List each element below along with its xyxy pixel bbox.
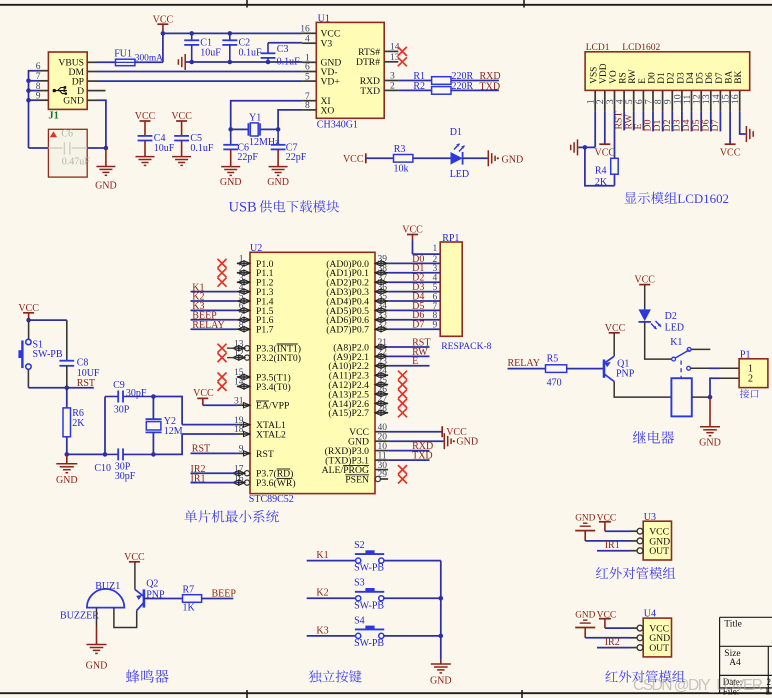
svg-text:D2: D2 (665, 311, 677, 322)
crystal Y1 (231, 113, 280, 149)
svg-text:E: E (412, 356, 418, 367)
wire D3 bus (388, 282, 440, 293)
svg-text:SW-PB: SW-PB (354, 563, 384, 574)
capacitor C6 0.47uF (disabled) (48, 128, 90, 177)
no-ERC marker P3.5 (218, 373, 227, 382)
power port VCC (Q1) (605, 323, 626, 356)
section title MCU (184, 510, 278, 523)
svg-text:RW: RW (628, 69, 638, 84)
U2 right pin stubs (375, 255, 388, 482)
transistor Q1 PNP (599, 356, 635, 381)
resistor R3 (394, 144, 413, 174)
power port VCC (U3) (597, 512, 631, 531)
net label E (LCD) (633, 112, 644, 131)
capacitor C1 (184, 31, 221, 64)
svg-text:Title: Title (724, 619, 742, 629)
power port VCC (EA/VPP) (193, 388, 237, 405)
svg-text:GND: GND (502, 154, 524, 165)
wire D2 bus (388, 273, 440, 284)
svg-text:S2: S2 (354, 540, 365, 551)
svg-text:300mA: 300mA (135, 54, 163, 64)
svg-text:GND: GND (86, 661, 108, 672)
svg-text:D6: D6 (705, 72, 715, 84)
net label K3 (key) (307, 625, 356, 636)
svg-text:TXD: TXD (360, 86, 380, 97)
svg-text:GND: GND (56, 475, 78, 486)
svg-text:R4: R4 (595, 166, 607, 177)
no-ERC marker DTR# (398, 57, 407, 66)
RP1 pin 1 (413, 244, 441, 254)
connector J1 (48, 52, 87, 109)
watermark (633, 677, 763, 694)
svg-text:30P: 30P (114, 404, 130, 415)
svg-text:OUT: OUT (649, 546, 669, 557)
svg-text:R2: R2 (413, 81, 425, 92)
connector P1 (739, 349, 768, 398)
ground (C5) (172, 157, 191, 166)
net label RW (LCD) (623, 112, 634, 131)
svg-text:RXD: RXD (480, 71, 501, 82)
ground (U4) (575, 610, 630, 638)
svg-text:0.1uF: 0.1uF (190, 143, 214, 154)
wire XI (228, 101, 302, 132)
svg-text:10uF: 10uF (200, 48, 221, 59)
power port VCC (C4) (135, 111, 156, 136)
wire D6 bus (388, 310, 440, 321)
switch S4 SW-PB (354, 615, 384, 649)
no-ERC marker P1.1 (218, 268, 227, 277)
net label TXD (480, 81, 501, 92)
ground (decoupling rail) (178, 54, 302, 70)
IR module U4 (631, 609, 672, 657)
no-ERC marker P2 (398, 399, 407, 408)
ground (keys) (430, 660, 452, 687)
svg-text:29: 29 (378, 470, 388, 480)
capacitor C5 (174, 133, 214, 157)
svg-text:LCD1602: LCD1602 (677, 192, 729, 206)
svg-text:470: 470 (547, 377, 562, 388)
svg-text:D4: D4 (686, 72, 696, 84)
LED D2 (634, 274, 684, 333)
ground (D1) (488, 150, 523, 166)
power port VCC (USB) (153, 14, 174, 33)
net label D6 (LCD) (700, 112, 711, 132)
wire J1 GND (97, 100, 108, 150)
svg-text:D2: D2 (667, 72, 677, 84)
svg-text:VO: VO (609, 70, 619, 84)
svg-text:S4: S4 (354, 615, 365, 626)
wire coil to P1/GND (692, 378, 739, 399)
wire buzzer left (96, 608, 98, 626)
ground GND (J1) (95, 148, 117, 191)
svg-text:GND: GND (575, 610, 595, 620)
wire C9 to XTAL1 (153, 397, 182, 425)
relay contact K1 (670, 337, 739, 377)
net label RST (U2) (191, 444, 237, 455)
wire D4 bus (388, 291, 440, 302)
svg-text:RP1: RP1 (442, 233, 459, 244)
fuse FU1 (97, 49, 163, 66)
ground (C4) (136, 157, 155, 168)
svg-text:16: 16 (300, 25, 310, 35)
ground (LCD BK) (740, 112, 754, 142)
no-ERC marker P2 (398, 371, 407, 380)
svg-text:Y1: Y1 (249, 113, 261, 124)
U2 left pin stubs (233, 255, 250, 486)
net label RXD (480, 71, 501, 82)
net label BEEP (buzzer) (202, 588, 237, 599)
svg-text:16: 16 (730, 94, 741, 104)
chip U1 CH340G (316, 13, 384, 130)
svg-text:GND: GND (575, 513, 595, 523)
relay coil K1 (671, 378, 691, 416)
svg-text:E: E (766, 687, 772, 697)
wire D1 bus (388, 263, 440, 274)
net label IR1 (191, 474, 237, 485)
power port VCC (Q2) (124, 552, 145, 590)
svg-text:PSEN: PSEN (345, 474, 369, 485)
net label BEEP (191, 311, 237, 322)
svg-text:R5: R5 (547, 354, 559, 365)
svg-text:LED: LED (450, 169, 469, 180)
svg-text:E: E (638, 78, 648, 84)
resistor R2 (398, 81, 499, 94)
svg-text:FU1: FU1 (114, 49, 132, 60)
capacitor C6 22pF (223, 129, 258, 166)
svg-text:RESPACK-8: RESPACK-8 (441, 341, 491, 352)
svg-text:PNP: PNP (616, 368, 635, 379)
wire D5 bus (388, 301, 440, 312)
svg-text:S3: S3 (354, 578, 365, 589)
net label K1 (191, 282, 237, 293)
svg-text:VDD: VDD (599, 63, 609, 84)
svg-text:GND: GND (456, 437, 478, 448)
svg-text:U3: U3 (644, 512, 656, 523)
svg-text:11: 11 (378, 451, 387, 461)
ground (buzzer) (86, 626, 108, 672)
net label TXD (U2) (388, 451, 433, 462)
wire V3 (268, 42, 302, 44)
net label IR2 (597, 637, 631, 648)
net label E (P2) (388, 356, 429, 367)
section title relay (633, 431, 674, 444)
title block (720, 617, 772, 696)
net label D0 (LCD) (643, 112, 654, 132)
svg-text:GND: GND (95, 180, 117, 191)
svg-text:SW-PB: SW-PB (33, 349, 63, 360)
wire C10 to XTAL2 (153, 434, 182, 454)
svg-text:3: 3 (390, 72, 395, 82)
svg-text:D3: D3 (676, 72, 686, 84)
svg-text:BA: BA (725, 71, 735, 84)
net label RST (LCD) (614, 112, 625, 131)
svg-text:D5: D5 (696, 72, 706, 84)
svg-text:2: 2 (767, 677, 772, 687)
wire VO (614, 112, 616, 159)
svg-text:TXD: TXD (412, 451, 433, 462)
svg-text:40: 40 (378, 423, 388, 433)
svg-text:U1: U1 (318, 13, 330, 24)
svg-text:A4: A4 (729, 658, 741, 668)
section title U4 (605, 670, 684, 682)
ground (C7) (267, 167, 289, 188)
svg-text:VCC: VCC (343, 154, 364, 165)
svg-text:D1: D1 (657, 72, 667, 84)
resistor R6 (63, 388, 85, 457)
designator J1 (48, 111, 59, 122)
svg-text:CH340G1: CH340G1 (317, 120, 358, 131)
svg-text:BUZZER: BUZZER (60, 611, 99, 622)
wire Q1 collector (614, 382, 671, 398)
svg-text:0.1uF: 0.1uF (239, 48, 263, 59)
net label RST (P2) (388, 337, 430, 348)
svg-text:IR2: IR2 (605, 637, 620, 648)
no-ERC marker P2 (398, 390, 407, 399)
net label K2 (key) (307, 588, 356, 599)
svg-text:EA/VPP: EA/VPP (256, 401, 289, 412)
LCD pin stubs 1-16 (586, 90, 742, 111)
LED D1 (413, 127, 488, 180)
svg-text:C3: C3 (277, 44, 289, 55)
ground (reset) (56, 454, 78, 486)
net label RW (P2) (388, 347, 429, 358)
power port VCC (D1) (343, 153, 394, 165)
svg-text:D7: D7 (710, 119, 721, 131)
wire D2 to K1 (645, 322, 672, 359)
wire D0 bus (388, 254, 440, 265)
resistor R7 (144, 585, 202, 614)
svg-text:9: 9 (433, 321, 438, 331)
svg-text:12MHz: 12MHz (249, 137, 280, 148)
capacitor C9 (105, 380, 156, 454)
svg-text:OUT: OUT (649, 643, 669, 654)
capacitor C3 (261, 43, 301, 68)
no-ERC marker ALE (398, 465, 407, 474)
no-ERC marker RTS# (398, 47, 407, 56)
svg-text:XO: XO (321, 105, 335, 116)
no-ERC marker PSEN (398, 475, 407, 484)
IR module U3 (631, 512, 672, 560)
power port VCC (RP1) (402, 225, 423, 255)
svg-text:DTR#: DTR# (356, 57, 380, 68)
capacitor C8 (59, 357, 100, 387)
section title keys (309, 670, 362, 682)
svg-text:220R: 220R (452, 81, 474, 92)
svg-text:D7: D7 (412, 320, 424, 331)
svg-text:U2: U2 (250, 243, 262, 254)
power port VCC (LCD BA) (720, 112, 741, 159)
net label K3 (191, 301, 237, 312)
svg-text:10: 10 (378, 442, 388, 452)
wire XTAL2 (182, 433, 237, 435)
svg-text:GND: GND (430, 676, 452, 687)
svg-text:TXD: TXD (480, 81, 501, 92)
no-ERC marker P2 (398, 380, 407, 389)
svg-text:12M: 12M (164, 426, 183, 437)
svg-text:IR1: IR1 (605, 540, 620, 551)
svg-text:30pF: 30pF (115, 471, 136, 482)
svg-text:RTS#: RTS# (358, 47, 380, 58)
no-ERC marker P1.2 (218, 278, 227, 287)
wire J1 shield bus (26, 71, 38, 148)
wire S3 to gnd bus (384, 597, 441, 599)
svg-text:8: 8 (305, 101, 310, 111)
wire VCC rail (161, 31, 303, 62)
resistor R1 (398, 71, 499, 84)
svg-text:BEEP: BEEP (212, 588, 237, 599)
ground (U2) (388, 433, 478, 449)
svg-text:K1: K1 (670, 337, 682, 348)
svg-text:LED: LED (665, 322, 684, 333)
net label K2 (191, 292, 237, 303)
svg-text:4: 4 (305, 34, 310, 44)
wire key gnd bus (439, 561, 444, 660)
svg-text:D0: D0 (647, 72, 657, 84)
net label D5 (LCD) (691, 112, 702, 132)
wire S2 to gnd bus (384, 560, 441, 562)
wire buzzer right (114, 608, 137, 628)
net label IR2 (191, 464, 237, 475)
no-ERC marker P3.2 (218, 353, 237, 362)
switch S2 SW-PB (354, 540, 384, 574)
svg-text:CSDN @DIY_LOVER: CSDN @DIY_LOVER (633, 677, 763, 694)
ground (U3) (575, 513, 630, 541)
net label RELAY (drive) (508, 358, 546, 369)
svg-text:LCD1: LCD1 (586, 43, 610, 53)
section title buzzer (126, 670, 169, 683)
power port VCC (C5) (171, 111, 192, 136)
svg-text:0.47uF: 0.47uF (62, 156, 90, 167)
svg-text:(AD7)P0.7: (AD7)P0.7 (326, 325, 369, 336)
capacitor C4 (138, 133, 175, 157)
svg-text:C8: C8 (77, 357, 89, 368)
capacitor C7 22pF (271, 129, 307, 166)
net label D7 (LCD) (710, 112, 721, 132)
svg-text:1K: 1K (183, 602, 196, 613)
ground (relay) (699, 397, 721, 448)
svg-text:SW-PB: SW-PB (354, 638, 384, 649)
svg-text:RST: RST (256, 449, 274, 460)
svg-text:C10: C10 (94, 463, 111, 474)
svg-text:2: 2 (390, 82, 395, 92)
ground (C6) (220, 167, 242, 188)
power port VCC (U4) (597, 609, 631, 628)
U1 right pin stubs (384, 43, 400, 92)
J1 left pins 6-9 (36, 62, 49, 102)
capacitor C10 (94, 448, 153, 482)
svg-text:VCC: VCC (193, 388, 214, 399)
svg-text:30pF: 30pF (126, 388, 147, 399)
svg-text:BK: BK (734, 71, 744, 84)
svg-text:C9: C9 (113, 380, 125, 391)
svg-text:RELAY: RELAY (508, 358, 540, 369)
wire LCD VSS (578, 112, 595, 150)
net label K1 (key) (307, 550, 356, 561)
wire XO (276, 110, 302, 132)
svg-text:P1.7: P1.7 (256, 325, 274, 336)
svg-text:P3.2(INT0): P3.2(INT0) (256, 353, 301, 364)
net label RELAY (191, 320, 237, 331)
crystal Y2 (146, 397, 183, 457)
svg-text:P3.6(WR): P3.6(WR) (256, 478, 296, 489)
switch S1 SW-PB (18, 339, 62, 369)
wire gnd rail to C10 (67, 452, 107, 457)
svg-text:2K: 2K (72, 418, 85, 429)
ground (LCD VSS) (571, 139, 578, 155)
svg-text:VCC: VCC (720, 147, 741, 158)
power port VCC (reset) (18, 303, 39, 322)
wire D7 bus (388, 320, 440, 331)
svg-text:2: 2 (748, 374, 753, 385)
svg-text:2K: 2K (595, 177, 608, 188)
svg-text:K2: K2 (316, 588, 328, 599)
svg-text:VCC: VCC (634, 274, 655, 285)
svg-text:VCC: VCC (595, 147, 616, 158)
svg-text:GND: GND (267, 177, 289, 188)
switch S3 SW-PB (354, 578, 384, 612)
wire VSS to R4 bottom (585, 147, 615, 185)
svg-text:22pF: 22pF (237, 152, 258, 163)
no-ERC marker P1.0 (218, 259, 227, 268)
capacitor C2 (222, 31, 262, 64)
connector LCD1 LCD1602 (585, 43, 750, 90)
svg-text:5: 5 (305, 72, 310, 82)
wire XTAL1 (182, 424, 237, 426)
svg-text:1: 1 (433, 244, 438, 254)
net label IR1 (597, 540, 631, 551)
U1 left pin stubs (300, 25, 316, 112)
svg-text:K3: K3 (316, 625, 328, 636)
svg-text:22pF: 22pF (286, 152, 307, 163)
wire reset bottom (28, 369, 69, 390)
resistor R5 (546, 354, 600, 389)
svg-text:USB: USB (229, 200, 257, 216)
wire S4 to gnd bus (384, 635, 441, 637)
net label D1 (LCD) (652, 112, 663, 132)
svg-text:6: 6 (305, 63, 310, 73)
net label D3 (LCD) (672, 112, 683, 132)
svg-text:GND: GND (63, 96, 84, 107)
net label RST (reset) (67, 378, 95, 389)
transistor Q2 PNP (135, 578, 165, 610)
J1 right pins (87, 62, 105, 100)
resistor R4 (595, 158, 618, 188)
svg-text:VD+: VD+ (321, 77, 340, 88)
svg-text:P1: P1 (740, 349, 751, 360)
svg-text:U4: U4 (644, 609, 656, 620)
svg-text:K1: K1 (316, 550, 328, 561)
svg-text:V3: V3 (321, 39, 333, 50)
svg-text:BUZ1: BUZ1 (95, 581, 120, 592)
section title LCD (624, 192, 729, 206)
buzzer BUZ1 (60, 581, 124, 622)
wire DP to VD+ (97, 80, 302, 82)
net label D2 (LCD) (662, 112, 673, 132)
no-ERC marker P3.3 (218, 344, 237, 353)
svg-text:10k: 10k (394, 163, 409, 174)
svg-text:Q2: Q2 (146, 578, 158, 589)
svg-text:VSS: VSS (590, 67, 600, 84)
svg-text:LCD1602: LCD1602 (622, 43, 660, 53)
svg-text:XTAL2: XTAL2 (256, 429, 286, 440)
wire DM to VD- (97, 71, 302, 73)
resistor pack RP1 RESPACK-8 (440, 233, 491, 352)
svg-text:(A15)P2.7: (A15)P2.7 (328, 408, 369, 419)
net label D4 (LCD) (681, 112, 692, 132)
svg-text:J1: J1 (48, 111, 59, 122)
svg-text:C6: C6 (61, 128, 73, 139)
net label RXD (U2) (388, 441, 433, 452)
